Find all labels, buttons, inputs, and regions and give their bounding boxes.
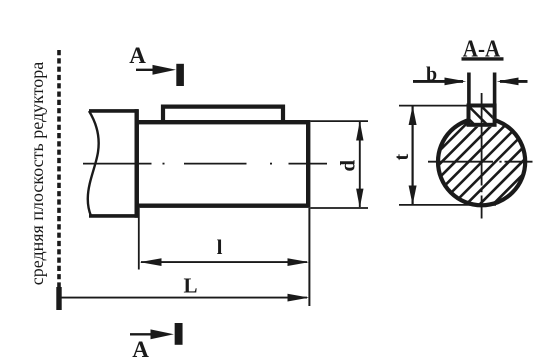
dimension t line with arrows <box>409 106 417 205</box>
dimension b extension line right <box>493 73 497 108</box>
dimension l extension line left <box>138 208 140 270</box>
section title underline <box>462 57 504 60</box>
key section white fill <box>467 104 497 127</box>
section horizontal centerline <box>428 161 533 163</box>
shaft stub top edge <box>89 109 138 113</box>
key section hatching <box>455 105 505 130</box>
shaft centerline <box>83 163 327 165</box>
svg-text:t: t <box>391 154 413 161</box>
break wavy line <box>88 111 99 216</box>
dimension L line with arrow and tick <box>59 287 309 310</box>
svg-text:A: A <box>132 337 149 362</box>
shaft section outline <box>438 118 525 205</box>
svg-text:L: L <box>183 274 197 298</box>
shaft section hatching <box>370 90 558 220</box>
svg-text:A: A <box>129 43 146 68</box>
shaft section circle <box>438 118 525 205</box>
shaft stub bottom edge <box>89 214 138 218</box>
dimension d extension lines <box>310 120 368 122</box>
svg-text:средняя плоскость редуктора: средняя плоскость редуктора <box>27 62 47 286</box>
dimension l and L extension line right <box>308 208 310 306</box>
dimension b left arrow <box>413 78 466 86</box>
shaft body <box>137 122 309 206</box>
axis: middle plane dashed line <box>57 50 61 288</box>
svg-text:d: d <box>336 160 360 172</box>
section vertical centerline <box>481 93 483 219</box>
dimension b right arrow <box>497 78 528 86</box>
dimension b extension line left <box>467 73 471 108</box>
dimension d line with arrows <box>356 121 363 208</box>
dimension t extension line bottom <box>399 204 496 206</box>
shoulder edge <box>134 109 138 218</box>
key side view <box>163 107 283 123</box>
dimension t extension line top <box>399 105 467 107</box>
dimension l line with arrows <box>140 258 309 266</box>
section marker A bottom <box>130 323 179 362</box>
svg-text:l: l <box>217 235 223 259</box>
key section outline <box>469 106 495 125</box>
section marker A top <box>129 43 180 86</box>
